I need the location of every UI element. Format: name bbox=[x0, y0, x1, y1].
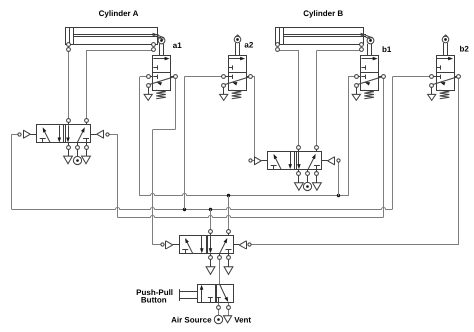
wire valve b2 port 2 to valve V3 right pilot bbox=[458, 79, 460, 245]
valve a1 return spring bbox=[156, 90, 166, 98]
valve a2 exhaust bbox=[223, 87, 225, 95]
valve a2 roller (idle) bbox=[235, 43, 237, 55]
valve V1 right pilot bbox=[103, 130, 105, 138]
cylinder A piston bbox=[69, 27, 71, 45]
valve V1 port 3 bbox=[86, 143, 88, 145]
valve V2 right box path 1-2 bbox=[308, 156, 314, 169]
valve V3 box divider bbox=[206, 236, 208, 254]
svg-text:Cylinder A: Cylinder A bbox=[99, 9, 139, 18]
valve a1 exhaust bbox=[148, 87, 150, 95]
wire cylinder A cap port to valve V1 port 4 bbox=[68, 46, 70, 121]
valve a2 body bbox=[229, 56, 247, 91]
wire valve V2 right pilot to group line II bbox=[338, 162, 340, 196]
valve V2 port 5 bbox=[298, 170, 300, 172]
wire valve V1 left pilot to group line I bbox=[11, 134, 18, 136]
wire valve V3 port 2 riser to group line II bbox=[228, 196, 230, 231]
wire cylinder A rod port to valve V1 port 2 bbox=[153, 49, 155, 52]
valve V2 exhaust port 5 bbox=[298, 176, 300, 183]
valve b1 body bbox=[361, 56, 379, 91]
valve a2 port 3 bbox=[222, 84, 226, 88]
valve V2 body bbox=[268, 152, 322, 170]
cylinder B piston rod bbox=[284, 34, 366, 36]
valve b2 roller (idle) bbox=[443, 43, 445, 55]
wire start valve port 3 to vent bbox=[228, 303, 230, 316]
valve V1 port 1 bbox=[77, 143, 79, 145]
valve V1 body bbox=[37, 125, 91, 143]
cylinder A piston rod bbox=[74, 34, 159, 36]
wire valve a1 port 2 to valve V3 left pilot bbox=[175, 79, 177, 130]
valve V2 left box blocked port 5 bbox=[271, 165, 277, 167]
valve V4 port 3 bbox=[227, 306, 231, 310]
valve V3 right pilot bbox=[246, 241, 248, 249]
valve V2 left box path 1-4 bbox=[275, 156, 281, 169]
valve a1 body bbox=[153, 56, 171, 91]
valve V4 port 1 bbox=[217, 306, 221, 310]
valve V3 right box path 4-5 bbox=[210, 236, 212, 249]
valve b1 port 3 bbox=[355, 84, 359, 88]
cylinder A rod port bbox=[152, 43, 156, 47]
valve V2 right box path 4-5 bbox=[298, 152, 300, 165]
valve V2 exhaust port 3 bbox=[316, 176, 318, 183]
valve V4 push-pull actuator bbox=[179, 289, 181, 301]
valve V4 (push-pull) body bbox=[198, 285, 234, 303]
valve a2 roller lever tip bbox=[235, 35, 240, 37]
valve V1 left pilot bbox=[23, 130, 25, 138]
valve V3 right box path 1-2 bbox=[220, 241, 226, 254]
valve V1 right box path 1-2 bbox=[77, 130, 83, 143]
valve V4 left box flow path 1-2 bbox=[201, 288, 203, 302]
valve V2 left box path 2-3 bbox=[290, 152, 292, 165]
valve V1 port 4 bbox=[68, 122, 70, 125]
wire group line I to valve b2 port 1 bbox=[392, 77, 394, 210]
valve V2 port 1 bbox=[307, 170, 309, 172]
svg-text:Cylinder B: Cylinder B bbox=[303, 9, 343, 18]
valve V2 right box blocked port 3 bbox=[314, 165, 320, 167]
valve V1 right box path 4-5 bbox=[68, 125, 70, 138]
valve V3 left pilot bbox=[165, 241, 167, 249]
wire group line I bus bbox=[12, 208, 393, 210]
valve b1 exhaust bbox=[356, 87, 358, 95]
valve a2 top box blocked port 3 bbox=[229, 67, 233, 69]
svg-text:Button: Button bbox=[141, 295, 167, 304]
valve b2 port 3 bbox=[430, 84, 434, 88]
valve V3 exhaust port 5 bbox=[210, 260, 212, 267]
valve b2 top box blocked port 3 bbox=[437, 67, 441, 69]
svg-text:b2: b2 bbox=[460, 45, 470, 54]
junction group line II / valve V2 right pilot bbox=[337, 194, 340, 197]
junction group line I / valve V3 port 4 bbox=[209, 208, 212, 211]
wire valve b1 port 2 drop to bus 3 bbox=[383, 77, 385, 218]
valve b1 top box flow path 1-2 bbox=[361, 58, 373, 60]
valve V1 left box path 2-3 bbox=[59, 125, 61, 138]
valve V1 left box blocked port 5 bbox=[40, 138, 46, 140]
valve a1 roller lever bbox=[153, 33, 165, 38]
valve b1 roller (pressed) bbox=[367, 44, 369, 55]
valve b1 return spring bbox=[364, 90, 374, 98]
wire valve V3 port 4 drop from group line I bbox=[210, 209, 212, 231]
wire start valve port 1 to air source bbox=[218, 303, 220, 316]
cylinder B piston bbox=[279, 27, 281, 45]
valve a1 roller (pressed) bbox=[159, 44, 161, 55]
junction group line I / valve a2 feed bbox=[183, 208, 186, 211]
wire bus 3 valve b1 output to valve V1 right pilot bbox=[118, 216, 384, 218]
valve a2 return spring bbox=[232, 90, 242, 98]
valve b1 roller lever bbox=[361, 33, 373, 38]
valve a1 bottom box flow path 2-3 bbox=[150, 77, 174, 85]
cylinder B rod port bbox=[360, 43, 364, 47]
valve V1 exhaust port 5 bbox=[68, 149, 70, 156]
valve V4 left box blocked port 3 bbox=[208, 297, 213, 299]
valve b2 bottom box flow path 2-3 bbox=[433, 77, 457, 85]
valve b2 bottom box blocked port 1 bbox=[437, 76, 441, 78]
valve V3 body bbox=[180, 236, 234, 254]
valve V3 port 5 bbox=[210, 254, 212, 256]
valve a1 port 2 bbox=[171, 76, 174, 78]
vent symbol bbox=[224, 316, 232, 323]
valve V3 port 1 bbox=[219, 254, 221, 256]
valve b2 body bbox=[437, 56, 455, 91]
valve V2 box divider bbox=[294, 152, 296, 170]
valve b2 port 2 bbox=[454, 76, 457, 78]
cylinder A body bbox=[66, 28, 158, 45]
wire valve b1 port 1 to group line II bbox=[348, 76, 356, 78]
valve V2 air supply port 1 bbox=[307, 176, 309, 183]
wire group line II bus bbox=[140, 194, 349, 196]
valve a2 bottom box blocked port 1 bbox=[229, 76, 233, 78]
valve a1 bottom box blocked port 1 bbox=[153, 76, 157, 78]
valve V2 port 2 bbox=[316, 149, 318, 152]
valve a2 bottom box flow path 2-3 bbox=[225, 77, 249, 85]
wire valve V1 right pilot to bus 3 bbox=[109, 134, 118, 136]
valve V2 port 4 bbox=[298, 149, 300, 152]
valve a1 top box blocked port 3 bbox=[153, 67, 157, 69]
svg-text:Vent: Vent bbox=[234, 315, 251, 324]
svg-text:a2: a2 bbox=[244, 40, 253, 49]
valve V1 right box blocked port 3 bbox=[83, 138, 89, 140]
valve V1 port 2 bbox=[86, 122, 88, 125]
valve a2 top box flow path 1-2 bbox=[229, 58, 241, 60]
valve V3 port 2 bbox=[228, 233, 230, 236]
valve b2 exhaust bbox=[431, 87, 433, 95]
svg-text:a1: a1 bbox=[173, 41, 182, 50]
valve b2 top box flow path 1-2 bbox=[437, 58, 449, 60]
valve V1 air supply port 1 bbox=[77, 149, 79, 156]
cylinder B body bbox=[276, 28, 364, 45]
valve b1 bottom box blocked port 1 bbox=[361, 76, 365, 78]
valve V3 port 4 bbox=[210, 233, 212, 236]
valve V3 exhaust port 3 bbox=[228, 260, 230, 267]
valve b2 roller lever tip bbox=[443, 35, 448, 37]
valve a1 port 1 bbox=[150, 76, 153, 78]
wire cylinder B rod port to valve V2 port 2 bbox=[317, 50, 362, 52]
wire valve a1 port 1 to group line II bbox=[140, 76, 148, 78]
cylinder A cap port bbox=[67, 43, 71, 47]
valve b2 port 1 bbox=[434, 76, 437, 78]
valve V3 left box path 1-4 bbox=[186, 241, 192, 254]
wire valve V3 port 1 to start valve port 2 bbox=[219, 260, 221, 284]
junction group line II / valve V3 port 2 bbox=[227, 194, 230, 197]
valve b2 return spring bbox=[440, 90, 450, 98]
valve a2 port 1 bbox=[226, 76, 229, 78]
cylinder B cap port bbox=[276, 43, 280, 47]
svg-text:Air Source: Air Source bbox=[171, 315, 212, 324]
valve V3 left box blocked port 5 bbox=[182, 249, 188, 251]
valve V1 left box path 1-4 bbox=[44, 130, 50, 143]
wire cylinder B cap port to valve V2 port 4 bbox=[278, 50, 299, 52]
valve V2 port 3 bbox=[316, 170, 318, 172]
valve a1 port 3 bbox=[147, 84, 151, 88]
air source symbol bbox=[214, 315, 222, 323]
valve V4 right box blocked port 1 bbox=[216, 297, 221, 299]
svg-text:b1: b1 bbox=[382, 45, 392, 54]
valve V4 right box flow path 2-3 bbox=[220, 284, 227, 299]
valve V1 box divider bbox=[63, 125, 65, 143]
valve V1 port 5 bbox=[68, 143, 70, 145]
valve V3 port 3 bbox=[228, 254, 230, 256]
valve V2 right pilot bbox=[334, 157, 336, 165]
valve b1 port 1 bbox=[358, 76, 361, 78]
valve a2 port 2 bbox=[246, 76, 249, 78]
valve b1 top box blocked port 3 bbox=[361, 67, 365, 69]
valve b1 bottom box flow path 2-3 bbox=[358, 77, 382, 85]
valve V2 left pilot bbox=[254, 157, 256, 165]
valve a1 top box flow path 1-2 bbox=[153, 58, 165, 60]
valve b1 port 2 bbox=[379, 76, 382, 78]
valve V4 box divider bbox=[215, 284, 217, 303]
valve V3 right box blocked port 3 bbox=[226, 249, 232, 251]
wire group line I to valve a2 port 1 bbox=[184, 77, 186, 210]
wire valve a2 port 2 to valve V2 left pilot bbox=[251, 76, 255, 78]
valve V1 exhaust port 3 bbox=[86, 149, 88, 156]
valve V3 left box path 2-3 bbox=[201, 236, 203, 249]
